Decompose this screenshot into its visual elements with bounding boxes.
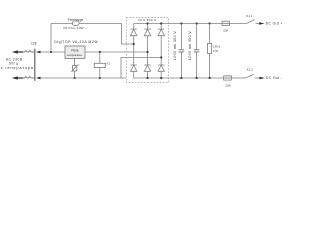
wire bottom bus after fuse — [232, 77, 246, 79]
svg-text:с генератора: с генератора — [1, 65, 34, 70]
switch contact K1.2 — [246, 74, 254, 78]
wire node A riser — [50, 24, 52, 53]
svg-text:напряжен.: напряжен. — [67, 53, 83, 57]
fuse F2 (bottom) — [224, 76, 232, 80]
svg-text:K1.2: K1.2 — [247, 68, 254, 72]
connector plug arrow top — [36, 51, 41, 54]
DC Out - arrow — [259, 77, 264, 80]
wire relay output to bridge phase 2 — [85, 51, 148, 53]
svg-text:K1: K1 — [106, 62, 110, 66]
wire from connector to node A to relay box — [40, 51, 65, 53]
svg-text:C28: C28 — [31, 41, 37, 45]
connector plug arrow bottom — [36, 77, 41, 80]
wire bottom DC- bus — [134, 77, 224, 79]
bridge module dashed box — [126, 18, 168, 83]
wire bottom AC line with breaker bumps — [23, 76, 34, 78]
diode VD5 (lower) — [144, 65, 150, 79]
diode VD2 (upper) — [144, 22, 150, 65]
voltage relay box U1 — [65, 46, 85, 58]
wire precharge left — [51, 23, 72, 25]
fuse F1 (top) — [222, 21, 230, 25]
wire AC N riser to bridge phase 3 — [121, 58, 161, 79]
svg-text:DC Out -: DC Out - — [266, 76, 283, 80]
diode VD4 (lower) — [131, 65, 137, 78]
wire varistor to bottom bus — [74, 71, 76, 78]
label AC 230V 50Hz from generator — [1, 57, 34, 70]
DC Out + arrow — [259, 22, 264, 25]
node A junction — [50, 51, 52, 53]
node K1 tap junction — [99, 51, 101, 53]
svg-text:20 Ohm 10W: 20 Ohm 10W — [63, 26, 84, 30]
AC input arrow L (top left, to generator) — [12, 50, 23, 53]
wire to DC out + — [255, 23, 259, 25]
wire bottom AC neutral bus — [40, 77, 126, 79]
wire varistor drop — [74, 58, 76, 65]
svg-text:3 W: 3 W — [213, 49, 219, 53]
svg-text:DC Out +: DC Out + — [266, 22, 283, 26]
wire top bus after fuse — [230, 23, 247, 25]
diode VD6 (lower) — [158, 65, 164, 79]
diode VD1 (upper) — [131, 24, 137, 66]
connector X1 socket bar — [34, 49, 36, 81]
switch contact K1.1 — [246, 20, 254, 24]
svg-text:1000 mk 450 V: 1000 mk 450 V — [173, 31, 177, 61]
bleeder resistor column — [208, 22, 221, 79]
AC input arrow N (bottom left) — [12, 76, 23, 79]
wire precharge right, down to bridge phase 1 — [79, 24, 134, 45]
svg-text:Реле: Реле — [71, 48, 79, 52]
wire top AC line with breaker bumps — [23, 50, 34, 52]
wire K1 coil drop — [99, 52, 101, 63]
wire top DC+ bus — [134, 23, 222, 25]
svg-text:DigiTOP VA-40A M2W: DigiTOP VA-40A M2W — [54, 40, 98, 44]
svg-text:1000 mk 450 V: 1000 mk 450 V — [188, 31, 192, 61]
resistor precharge — [72, 21, 79, 25]
svg-text:20A: 20A — [223, 28, 228, 32]
capacitor C2 — [188, 22, 199, 79]
varistor RU — [71, 65, 79, 72]
wire coil to bottom bus — [99, 68, 101, 78]
capacitor C1 — [173, 22, 184, 79]
diode VD3 (upper) — [158, 22, 164, 65]
svg-text:K1.1: K1.1 — [246, 14, 253, 18]
wire to DC out - — [255, 77, 260, 79]
relay coil K1 — [94, 63, 105, 67]
svg-text:30 A 600 V: 30 A 600 V — [138, 18, 157, 22]
svg-text:20A: 20A — [225, 83, 230, 87]
